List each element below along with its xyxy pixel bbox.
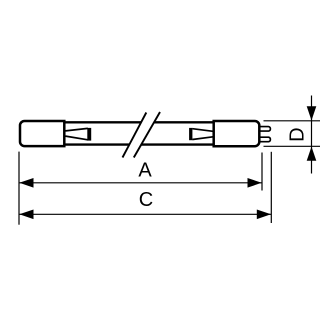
arrowhead D bottom	[307, 147, 317, 161]
arrowhead A right	[248, 178, 262, 188]
right extension line for C	[270, 152, 272, 223]
top pin	[258, 127, 270, 132]
arrowhead A left	[19, 178, 33, 188]
lamp tube bottom wall (right segment)	[141, 143, 214, 145]
D bottom extension line	[264, 145, 320, 147]
left extension line (A/C)	[18, 152, 20, 225]
left end cap	[20, 121, 64, 146]
right electrode wedge	[192, 129, 213, 140]
break mark line 1	[123, 113, 147, 158]
arrowhead D top	[307, 106, 317, 120]
right electrode end plate	[189, 128, 192, 140]
bottom pin	[258, 137, 270, 142]
lamp tube bottom wall (left segment)	[64, 143, 129, 145]
lamp tube top wall (right segment)	[154, 121, 214, 123]
right end cap	[214, 121, 260, 146]
break mark line 2	[134, 112, 160, 158]
dimension line A	[19, 182, 262, 184]
svg-text:D: D	[286, 127, 308, 141]
left electrode wedge	[66, 128, 88, 139]
lamp tube top wall (left segment)	[64, 121, 141, 123]
right extension line for A	[261, 153, 263, 191]
D top extension line	[264, 120, 320, 122]
dimension line C	[19, 213, 271, 215]
arrowhead C right	[257, 210, 271, 220]
dimension line D (vertical)	[311, 96, 313, 174]
svg-text:C: C	[139, 189, 153, 211]
arrowhead C left	[19, 210, 33, 220]
svg-text:A: A	[138, 159, 152, 181]
left electrode end plate	[87, 128, 91, 141]
